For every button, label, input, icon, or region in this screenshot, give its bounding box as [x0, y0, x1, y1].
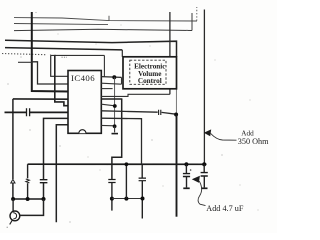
wire IC pin R5 stub	[101, 104, 115, 106]
wire dot1 drop	[185, 164, 187, 173]
wire R7 below long horizontal	[141, 164, 143, 177]
arrow for Add 350 Ohm	[204, 129, 211, 136]
junction dot on long horizontal	[125, 162, 129, 166]
capacitor C5 plates	[139, 178, 146, 181]
wire bus row1 top	[14, 18, 197, 21]
junction dot2 on long horizontal	[202, 162, 206, 166]
lamp inner curl	[13, 213, 16, 219]
wire leg to IC pin L5	[55, 55, 68, 105]
junction dot row right	[42, 197, 46, 201]
leader line Add 350 Ohm	[211, 133, 237, 140]
wire from long horizontal down to mid2	[125, 164, 127, 198]
dotted fragment	[62, 56, 68, 58]
wire IC pin R1 stub	[101, 76, 121, 79]
electronic volume control dashed box	[130, 60, 166, 84]
electronic volume control outer box	[123, 57, 177, 89]
capacitor C7 plates	[201, 173, 208, 176]
dotted row fade specks	[50, 54, 51, 55]
wire lamp loop bottom	[20, 199, 44, 215]
arrow for Add 4.7 uF	[192, 176, 200, 183]
op-amp IC406 box	[68, 71, 101, 134]
diode D1 symbol on left drop	[11, 179, 15, 183]
capacitor C1 plates	[27, 108, 30, 116]
wire below squiggle	[27, 183, 29, 199]
wire bottom dot row	[13, 198, 46, 200]
wire bus row5	[5, 48, 122, 50]
scan speckles	[35, 12, 36, 13]
wire capacitor to IC	[30, 111, 68, 113]
symbol squiggle on stub2	[26, 179, 30, 183]
wire leg to IC pin L1	[51, 55, 68, 76]
wire IC pin R6 line with tiny cap	[101, 111, 157, 112]
wire bus row2	[14, 24, 108, 25]
svg-text:Add 4.7 uF: Add 4.7 uF	[206, 204, 244, 213]
wire IC pin R4 to right vertical	[101, 94, 170, 96]
wire vertical from R1 dot to R8 dot	[114, 77, 116, 126]
IC406 bottom notch	[79, 130, 86, 134]
wire below C6	[186, 177, 188, 188]
wire right leg of over-IC line	[103, 55, 105, 76]
lamp B1 circle	[10, 211, 20, 221]
junction dot1 on long horizontal	[184, 162, 188, 166]
wire capacitor feed line to IC pin L6	[5, 111, 27, 113]
wire thick vertical drop	[112, 99, 122, 179]
wire row3 up tick	[191, 13, 193, 31]
junction dot row mid	[26, 197, 30, 201]
wire bus row4 to volume control box	[5, 40, 177, 57]
capacitor C3 plates on drop	[108, 180, 115, 183]
tiny capacitor C4 plates	[159, 110, 161, 115]
svg-text:IC406: IC406	[71, 73, 95, 83]
wire IC thick stub to vertical	[101, 98, 122, 100]
wire long right vertical VR1	[169, 12, 171, 94]
wire below C3	[111, 183, 113, 211]
node main left vertical bus	[32, 12, 68, 92]
junction dot row left	[11, 197, 15, 201]
wire dot2 drop	[203, 164, 205, 172]
wire IC pin L8 long drop	[56, 125, 68, 223]
wire long bottom horizontal	[28, 163, 207, 165]
wire R8 to termination	[114, 126, 116, 132]
wire IC pin R7 long drop	[101, 118, 141, 164]
wire IC pin R3 stub	[101, 88, 112, 90]
wire dotted bus row6	[2, 54, 46, 55]
capacitor C6 plates	[183, 174, 190, 177]
junction dot R8	[113, 124, 117, 128]
wire VR2 right vertical	[203, 10, 205, 165]
junction dot R1	[112, 75, 116, 79]
wire R1-R2 jumper	[121, 77, 123, 84]
wire IC pin R2 stub	[101, 83, 121, 84]
wire over-IC line y55	[51, 54, 105, 56]
junction dot R5	[113, 104, 117, 108]
wire stub2 drop from long horizontal	[27, 164, 29, 178]
svg-text:350 Ohm: 350 Ohm	[238, 137, 269, 146]
wire below C7	[203, 176, 205, 187]
junction dot mid bottom row	[110, 197, 114, 201]
capacitor C2 plates on L7 drop	[40, 180, 48, 183]
speck near C6	[190, 169, 192, 171]
lamp tail	[10, 220, 13, 224]
termination bar R8	[112, 133, 119, 135]
termination bar below C6	[183, 187, 189, 189]
wire dot row to lamp	[12, 199, 14, 211]
wire corner line to IC pin L4	[13, 98, 68, 100]
wire left drop from corner	[12, 99, 14, 179]
termination bar below C7	[201, 187, 207, 189]
wire faint from box corner down	[175, 89, 177, 114]
wire C4 to junction	[162, 112, 176, 114]
junction dot on R7 drop	[141, 197, 145, 201]
wire below C5	[141, 181, 143, 219]
wire middle bottom row	[112, 198, 143, 200]
wire below C2	[43, 183, 45, 199]
wire jog tick on row1	[108, 16, 110, 21]
wire thick right vertical to bottom	[176, 115, 178, 217]
wire tee into left bus	[18, 61, 32, 63]
wire row5 leg into box	[121, 50, 123, 57]
wire left bus to IC pin L2	[32, 62, 68, 84]
junction dot right mid	[174, 113, 178, 117]
wire bus row3	[14, 29, 192, 30]
wire dotted off-page stub row1	[196, 7, 198, 21]
wire IC pin R8 stub	[101, 124, 114, 126]
wire IC pin L7 down	[44, 118, 69, 179]
speck under lamp	[7, 227, 8, 228]
leader line Add 4.7 uF	[198, 181, 205, 206]
wire below diode	[12, 183, 14, 199]
svg-text:Control: Control	[138, 77, 162, 85]
junction dot mid2	[124, 197, 128, 201]
